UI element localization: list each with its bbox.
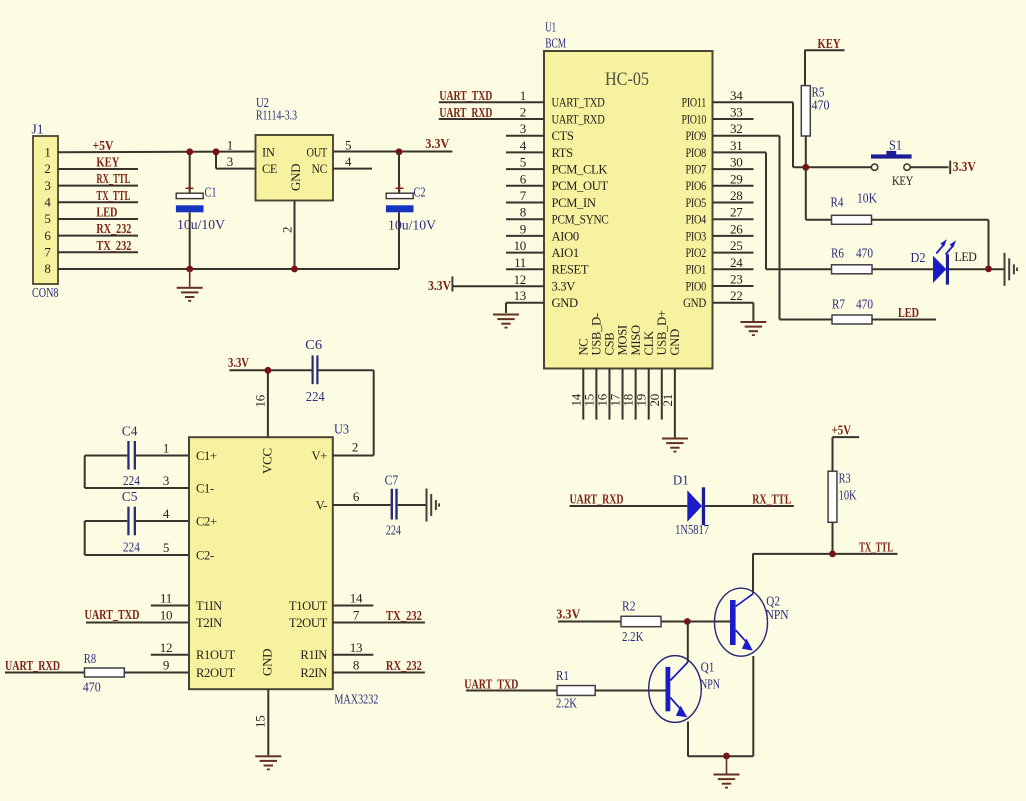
svg-text:2: 2 [44,161,50,176]
svg-text:4: 4 [44,195,51,210]
svg-text:11: 11 [514,255,526,270]
svg-text:2: 2 [352,440,358,455]
svg-text:14: 14 [350,591,363,606]
svg-text:U1: U1 [545,20,556,35]
wire net RX_TTL from J1 pin3 [58,172,138,187]
svg-text:8: 8 [520,205,526,220]
svg-text:NPN: NPN [700,677,720,692]
svg-text:C7: C7 [385,473,399,488]
svg-text:CLK: CLK [642,331,656,355]
svg-text:10: 10 [514,238,526,253]
svg-text:CSB: CSB [603,333,617,356]
wire UART_RXD to D1 to RX_TTL [570,493,794,508]
svg-text:28: 28 [730,188,742,203]
svg-text:+5V: +5V [93,139,114,154]
wire net TX_232 from J1 pin7 [58,239,138,254]
wire UART_TXD to R1 [464,677,557,692]
svg-text:6: 6 [520,171,527,186]
svg-text:R2IN: R2IN [300,666,327,680]
svg-text:R6: R6 [831,246,844,261]
svg-text:27: 27 [730,205,743,220]
svg-text:4: 4 [163,506,170,521]
svg-text:2.2K: 2.2K [556,696,577,711]
svg-text:7: 7 [44,245,51,260]
svg-text:470: 470 [812,98,830,113]
svg-text:UART_TXD: UART_TXD [552,96,605,110]
wire U1 pin 5 stub [506,155,544,170]
svg-text:R8: R8 [84,651,96,666]
wire U1 pin31 PIO8 to R6 [713,138,767,269]
wire R4 to D2 cathode node [872,220,989,269]
U1 pin number 13 [514,288,526,303]
resistor R2 2.2K [621,599,661,645]
svg-text:12: 12 [160,640,172,655]
wire U1 pin33 stub [713,105,754,120]
svg-text:PIO10: PIO10 [682,112,707,126]
svg-text:R1114-3.3: R1114-3.3 [256,108,297,123]
wire U1 pin22 GND [713,288,754,321]
wire U1 pin 17 stub down [608,369,623,420]
svg-text:2.2K: 2.2K [622,629,644,644]
svg-text:PCM_OUT: PCM_OUT [552,179,609,193]
svg-text:+5V: +5V [832,424,852,439]
wire PIO8 row to R6 [766,268,832,270]
svg-text:C4: C4 [122,424,138,439]
svg-text:NC: NC [577,339,591,356]
svg-text:LED: LED [955,250,977,264]
svg-text:32: 32 [730,121,742,136]
capacitor C4 224 [122,424,140,489]
wire net TX_TTL from J1 pin4 [58,189,138,204]
wire Q2 emitter down [752,656,754,756]
svg-text:4: 4 [520,138,527,153]
wire U1 pin 27 stub [713,205,754,220]
wire U1 pin 6 stub [506,171,544,186]
svg-text:MOSI: MOSI [616,325,630,355]
svg-text:GND: GND [288,164,303,191]
node: 3.3V / C2 junction [396,148,403,155]
svg-text:T2OUT: T2OUT [289,616,328,630]
switch S1 [871,138,913,188]
wire R1 to Q1 base [595,690,665,692]
svg-text:470: 470 [856,297,873,312]
svg-text:11: 11 [160,591,172,606]
svg-text:3.3V: 3.3V [228,356,249,371]
wire U1 pin 9 stub [506,221,544,236]
wire U1 pin 26 stub [713,221,754,236]
net label KEY at R5 top [805,37,845,86]
capacitor C5 224 [122,489,140,555]
wire U1 pin32 PIO9 to R7 [713,121,780,319]
ground at U1 pin13 [493,314,519,329]
wire UART_TXD to U3 pin10 [85,608,190,624]
svg-text:OUT: OUT [307,146,328,160]
svg-text:PCM_SYNC: PCM_SYNC [552,213,609,227]
svg-text:470: 470 [83,680,101,695]
wire net RX_232 from J1 pin6 [58,222,138,237]
wire net LED from J1 pin5 [58,206,138,221]
svg-text:PIO8: PIO8 [686,146,707,160]
svg-text:TX_232: TX_232 [386,609,422,624]
svg-text:9: 9 [520,221,526,236]
wire U1 pin 23 stub [713,272,754,287]
svg-text:PIO4: PIO4 [686,213,707,227]
svg-text:R3: R3 [839,471,851,486]
node: +5V / C1 junction [186,148,193,155]
svg-text:3: 3 [163,473,169,488]
svg-text:5: 5 [163,540,169,555]
wire U1 pin 8 stub [506,205,544,220]
capacitor C7 224 [385,473,401,538]
svg-text:R2: R2 [622,599,636,614]
svg-text:1: 1 [44,145,50,160]
svg-text:7: 7 [353,608,360,623]
svg-text:TX_TTL: TX_TTL [859,541,893,556]
svg-text:5: 5 [345,138,351,153]
svg-text:GND: GND [552,296,578,310]
wire U1 pin 21 GND down [660,369,675,438]
resistor R7 470 [832,297,873,325]
wire junction down to R4 [806,167,832,220]
node: D2/R4/ground junction [985,266,992,273]
IC U3 MAX3232 [189,422,379,707]
svg-text:2: 2 [520,105,526,120]
U1 pin number 12 [514,272,526,287]
wire TX_TTL row [753,541,898,556]
wire KEY junction row to S1 [793,166,871,168]
svg-text:5: 5 [44,211,50,226]
resistor R6 470 [831,246,873,274]
wire U3 R2IN pin8 to RX_232 [333,658,425,675]
wire U3 pin12 stub [151,640,189,655]
svg-text:UART_RXD: UART_RXD [5,659,60,674]
svg-text:V-: V- [316,498,328,512]
svg-text:PIO6: PIO6 [686,179,707,193]
svg-text:D1: D1 [673,473,689,488]
svg-text:NC: NC [312,162,328,176]
svg-text:RX_232: RX_232 [386,659,422,674]
svg-text:31: 31 [730,138,742,153]
wire U3 V- pin6 to C7 [333,489,391,505]
svg-text:13: 13 [514,288,526,303]
wire U1 pin 15 stub down [581,369,596,420]
svg-text:AIO0: AIO0 [552,229,579,243]
power port 3.3V at U1 pin12 [428,276,544,294]
node: C1 / GND rail junction [186,266,193,273]
svg-text:1: 1 [163,441,169,456]
wire +5V from J1 pin1 to U2 IN [58,139,256,154]
svg-text:PIO7: PIO7 [686,163,707,177]
wire U2 CE branch [216,152,256,169]
node: emitter rail junction [723,753,730,760]
wire U1 pin 4 stub [506,138,544,153]
svg-text:3.3V: 3.3V [552,279,576,293]
wire 3.3V output of U2 [333,137,452,152]
svg-text:10: 10 [160,608,172,623]
wire U1 pin 3 stub [506,121,544,136]
node: 3.3V / VCC junction [265,367,272,374]
svg-text:224: 224 [123,473,140,488]
svg-text:9: 9 [163,658,169,673]
svg-text:3.3V: 3.3V [556,607,580,622]
svg-text:UART_TXD: UART_TXD [464,677,518,692]
wire U3 pin4 with C5 [85,506,189,521]
node: R5/S1/R4 junction [802,164,809,171]
svg-text:UART_RXD: UART_RXD [570,493,624,508]
wire R2 to Q2 base [661,621,730,623]
wire U1 pin 18 stub down [621,369,636,420]
svg-text:RX_TTL: RX_TTL [96,172,130,187]
wire U1 pin 28 stub [713,188,754,203]
svg-text:CTS: CTS [552,129,574,143]
svg-text:C1: C1 [205,185,217,200]
svg-text:T1IN: T1IN [196,599,222,613]
svg-text:UART_RXD: UART_RXD [439,106,492,121]
wire net KEY from J1 pin2 [58,156,138,171]
LED D2 [911,239,977,284]
svg-text:RX_TTL: RX_TTL [752,493,791,508]
ground below C1 [177,269,203,302]
wire U1 pin 19 stub down [634,369,649,420]
capacitor C6 224 [305,337,325,404]
svg-text:C2+: C2+ [196,514,217,528]
wire U1 pin 7 stub [506,188,544,203]
svg-text:USB_D+: USB_D+ [655,310,669,355]
svg-text:5: 5 [520,155,526,170]
svg-text:C1-: C1- [196,481,214,495]
wire U1 pin13 GND [506,303,544,313]
svg-text:D2: D2 [911,250,926,265]
svg-text:PCM_IN: PCM_IN [552,196,596,210]
wire UART_TXD to U1 pin1 [439,89,544,104]
svg-text:3.3V: 3.3V [953,160,976,175]
svg-text:10K: 10K [857,191,877,206]
svg-text:PCM_CLK: PCM_CLK [552,163,608,177]
ground below Q1/Q2 [714,756,740,789]
svg-text:8: 8 [44,261,50,276]
wire Q2 collector up to TX_TTL [752,554,754,594]
resistor R8 470 [83,651,125,695]
wire 3.3V to R2 [556,607,621,622]
svg-text:PIO1: PIO1 [686,263,707,277]
svg-text:3: 3 [44,178,50,193]
svg-text:4: 4 [345,154,352,169]
wire R7 to LED net label [872,306,936,321]
svg-text:10K: 10K [839,488,857,503]
svg-text:3: 3 [227,154,233,169]
svg-text:224: 224 [306,389,325,404]
power port 3.3V right of S1 [950,160,976,175]
svg-text:2: 2 [280,227,295,233]
svg-text:AIO1: AIO1 [552,246,579,260]
svg-text:TX_TTL: TX_TTL [96,189,130,204]
svg-text:8: 8 [353,658,359,673]
svg-text:GND: GND [683,296,706,310]
svg-text:PIO0: PIO0 [686,279,707,293]
svg-text:3.3V: 3.3V [425,137,449,152]
svg-text:NPN: NPN [766,607,789,622]
svg-text:13: 13 [350,640,362,655]
wire 3.3V to U3 VCC pin16 [228,356,312,437]
svg-text:RX_232: RX_232 [96,222,131,237]
connector J1 CON8 [32,122,59,301]
svg-text:CON8: CON8 [32,285,59,300]
svg-text:C2-: C2- [196,548,214,562]
wire D2 cathode to ground [949,268,1004,270]
svg-text:CE: CE [262,162,278,176]
wire R3 bottom to TX_TTL node [832,522,834,554]
svg-text:USB_D-: USB_D- [590,313,604,355]
transistor Q1 NPN [649,656,720,723]
ground right of D2 [1004,253,1019,286]
svg-text:V+: V+ [312,449,328,463]
svg-text:26: 26 [730,221,743,236]
svg-text:224: 224 [123,540,140,555]
transistor Q2 NPN [715,588,789,656]
wire U1 pin 30 stub [713,155,754,170]
svg-text:R7: R7 [832,297,845,312]
node: R3 / TX_TTL junction [829,551,836,558]
wire C6 to U3 V+ pin2 [319,370,374,455]
wire R5 bottom to junction [805,136,807,167]
svg-text:C2: C2 [414,185,426,200]
svg-text:C1+: C1+ [196,449,217,463]
svg-text:Q1: Q1 [701,660,715,675]
svg-text:T1OUT: T1OUT [289,599,328,613]
svg-text:MAX3232: MAX3232 [334,692,378,707]
svg-text:24: 24 [730,255,743,270]
wire U2 GND pin2 down to rail [280,201,295,270]
ground right of C7 [426,489,441,522]
ground at U1 pin22 [740,321,766,336]
svg-text:R1OUT: R1OUT [196,648,235,662]
svg-text:R1: R1 [556,668,569,683]
svg-text:10u/10V: 10u/10V [388,218,436,233]
svg-text:33: 33 [730,105,742,120]
svg-text:30: 30 [730,155,742,170]
svg-text:RESET: RESET [552,263,589,277]
svg-text:HC-05: HC-05 [605,69,649,90]
svg-text:PIO5: PIO5 [686,196,707,210]
svg-text:UART_RXD: UART_RXD [552,112,605,126]
power port +5V above R3 [832,424,860,472]
wire U1 pin 20 stub down [647,369,662,420]
resistor R4 10K [831,191,878,225]
ground at U3 pin15 [255,755,281,770]
svg-text:LED: LED [96,206,117,221]
wire Q1 collector up to R2 node [687,622,689,663]
wire U3 GND pin15 down [253,689,269,755]
svg-text:KEY: KEY [96,156,119,171]
wire U1 pin 11 stub [506,255,544,270]
svg-text:1: 1 [227,138,233,153]
node: R2 / Q1 collector junction [684,618,691,625]
wire U1 pin 16 stub down [594,369,609,420]
svg-text:470: 470 [856,246,873,261]
wire U3 pin5 loop [85,521,189,555]
wire U1 pin 10 stub [506,238,544,253]
wire U1 pin 24 stub [713,255,754,270]
resistor R5 470 [801,85,829,137]
svg-text:RTS: RTS [552,146,574,160]
wire U3 pin13 stub [333,640,374,655]
svg-text:12: 12 [514,272,526,287]
svg-text:22: 22 [730,288,742,303]
svg-text:LED: LED [898,306,919,321]
svg-text:KEY: KEY [818,37,841,52]
svg-text:16: 16 [253,394,268,407]
IC U1 BCM HC-05 [544,20,713,369]
svg-text:S1: S1 [889,138,902,153]
svg-text:21: 21 [660,394,675,406]
wire PIO9 row to R7 [780,319,833,321]
resistor R3 10K [828,471,857,523]
wire GND rail from J1 pin8 to C2 [58,268,399,270]
resistor R1 2.2K [556,668,595,711]
wire Q1 emitter down [687,722,689,757]
svg-text:UART_TXD: UART_TXD [439,89,492,104]
capacitor C1 10u/10V [176,152,225,270]
svg-text:UART_TXD: UART_TXD [85,608,140,623]
svg-text:6: 6 [353,489,360,504]
svg-text:R1IN: R1IN [300,648,327,662]
wire U1 pin 25 stub [713,238,754,253]
wire R6 to D2 anode [872,268,933,270]
ground at U1 pin21 [662,438,688,453]
wire U1 pin 29 stub [713,171,754,186]
wire UART_RXD through R8 to U3 pin9 [5,658,189,675]
svg-text:34: 34 [730,88,743,103]
svg-text:PIO3: PIO3 [686,229,707,243]
svg-text:GND: GND [668,329,682,356]
wire U1 pin 14 stub down [568,369,583,420]
svg-text:15: 15 [253,716,268,728]
svg-text:R2OUT: R2OUT [196,666,235,680]
wire U3 pin1 with C4 [85,441,189,456]
svg-text:TX_232: TX_232 [96,239,131,254]
svg-text:PIO11: PIO11 [682,96,707,110]
svg-text:1: 1 [520,88,526,103]
wire UART_RXD to U1 pin2 [439,106,544,121]
svg-text:C5: C5 [122,489,138,504]
svg-text:VCC: VCC [260,448,275,474]
svg-text:C6: C6 [305,337,322,352]
svg-text:J1: J1 [32,122,44,137]
svg-text:29: 29 [730,171,742,186]
wire U1 pin34 PIO11 to KEY net [713,88,794,168]
capacitor C2 10u/10V [386,152,436,270]
svg-text:GND: GND [260,649,275,676]
svg-text:PIO9: PIO9 [686,129,707,143]
svg-text:3.3V: 3.3V [428,279,451,294]
node: U2 GND / rail junction [291,266,298,273]
node: CE branch junction [213,148,220,155]
diode D1 1N5817 [673,473,709,538]
svg-text:U3: U3 [334,422,349,437]
svg-text:3: 3 [520,121,526,136]
svg-text:IN: IN [262,146,275,160]
wire C7 to ground [398,504,426,506]
svg-text:10u/10V: 10u/10V [177,217,225,232]
U1 pin number 2 [520,105,526,120]
wire U3 T2OUT pin7 to TX_232 [333,608,425,625]
wire S1 to 3.3V port [910,166,948,168]
svg-text:25: 25 [730,238,742,253]
voltage regulator U2 R1114-3.3 [227,95,352,201]
svg-text:MISO: MISO [629,325,643,355]
wire U2 NC stub pin4 [333,168,372,170]
wire U3 pin3 loop [85,456,189,489]
